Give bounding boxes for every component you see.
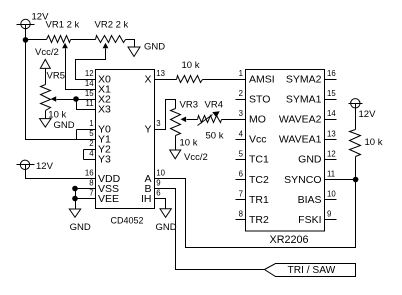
svg-text:Y3: Y3 (98, 153, 111, 165)
svg-text:CD4052: CD4052 (111, 215, 144, 225)
svg-text:3: 3 (156, 119, 160, 128)
svg-text:13: 13 (327, 129, 336, 138)
svg-text:10 k: 10 k (48, 109, 66, 120)
svg-text:GND: GND (156, 222, 177, 233)
svg-text:STO: STO (249, 93, 270, 105)
svg-text:12: 12 (327, 149, 336, 158)
svg-text:VR3: VR3 (180, 99, 198, 110)
svg-text:TC2: TC2 (249, 174, 269, 186)
svg-text:8: 8 (89, 179, 93, 188)
svg-text:3: 3 (239, 109, 243, 118)
svg-text:4: 4 (89, 149, 94, 158)
svg-text:6: 6 (156, 189, 160, 198)
svg-text:TR1: TR1 (249, 194, 269, 206)
svg-text:VR5: VR5 (47, 71, 65, 82)
svg-text:VEE: VEE (98, 193, 119, 205)
svg-text:Vcc: Vcc (249, 134, 267, 146)
svg-text:IH: IH (141, 193, 152, 205)
svg-text:14: 14 (327, 109, 336, 118)
svg-text:14: 14 (85, 79, 94, 88)
svg-text:VR2 2 k: VR2 2 k (95, 20, 129, 31)
svg-text:10 k: 10 k (365, 137, 383, 148)
svg-text:9: 9 (327, 210, 331, 219)
svg-text:XR2206: XR2206 (270, 234, 309, 246)
svg-text:12: 12 (85, 69, 94, 78)
svg-text:VR4: VR4 (205, 99, 223, 110)
svg-text:16: 16 (327, 69, 336, 78)
svg-text:12V: 12V (36, 161, 54, 172)
svg-text:GND: GND (298, 154, 322, 166)
svg-text:TRI / SAW: TRI / SAW (288, 265, 336, 276)
svg-text:Y: Y (144, 123, 151, 135)
svg-text:15: 15 (327, 89, 336, 98)
svg-text:SYMA2: SYMA2 (286, 73, 322, 85)
svg-text:AMSI: AMSI (249, 73, 275, 85)
svg-text:TC1: TC1 (249, 154, 269, 166)
svg-text:WAVEA1: WAVEA1 (279, 134, 322, 146)
svg-text:2: 2 (89, 139, 93, 148)
svg-text:8: 8 (239, 210, 243, 219)
svg-text:FSKI: FSKI (298, 214, 321, 226)
svg-text:16: 16 (85, 169, 94, 178)
svg-text:10 k: 10 k (182, 60, 200, 71)
svg-text:11: 11 (327, 170, 335, 179)
svg-text:6: 6 (239, 170, 243, 179)
svg-text:10: 10 (156, 169, 165, 178)
svg-text:1: 1 (239, 69, 243, 78)
svg-text:9: 9 (156, 179, 160, 188)
svg-text:GND: GND (70, 222, 91, 233)
svg-text:7: 7 (89, 189, 93, 198)
svg-text:WAVEA2: WAVEA2 (279, 114, 322, 126)
svg-text:VR1 2 k: VR1 2 k (46, 20, 80, 31)
svg-text:4: 4 (239, 129, 244, 138)
svg-text:X3: X3 (98, 103, 111, 115)
svg-text:GND: GND (144, 41, 165, 52)
svg-text:11: 11 (86, 99, 94, 108)
svg-text:2: 2 (239, 89, 243, 98)
svg-text:X: X (144, 73, 151, 85)
svg-text:Vcc/2: Vcc/2 (184, 152, 208, 163)
svg-text:5: 5 (239, 149, 244, 158)
svg-text:MO: MO (249, 114, 266, 126)
svg-text:15: 15 (85, 89, 94, 98)
svg-text:12V: 12V (359, 109, 377, 120)
svg-text:TR2: TR2 (249, 214, 269, 226)
svg-text:BIAS: BIAS (298, 194, 322, 206)
svg-text:GND: GND (54, 120, 75, 131)
svg-text:5: 5 (89, 129, 94, 138)
svg-text:SYNCO: SYNCO (284, 174, 321, 186)
svg-text:Vcc/2: Vcc/2 (35, 47, 59, 58)
svg-text:7: 7 (239, 190, 243, 199)
svg-text:10 k: 10 k (180, 137, 198, 148)
svg-text:50 k: 50 k (206, 130, 224, 141)
svg-text:10: 10 (327, 190, 336, 199)
svg-text:SYMA1: SYMA1 (286, 93, 322, 105)
svg-text:1: 1 (89, 119, 93, 128)
svg-text:13: 13 (156, 69, 165, 78)
